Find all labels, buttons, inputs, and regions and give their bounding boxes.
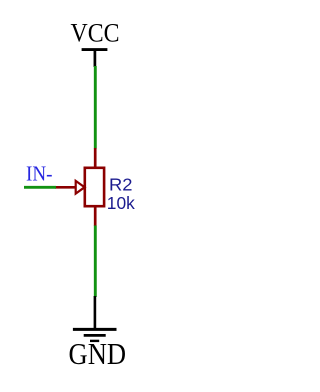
ground bar 3 [90, 340, 99, 342]
potentiometer R2 pin 1 stub [94, 148, 97, 167]
svg-text:VCC: VCC [71, 19, 120, 48]
potentiometer R2 pin 3 stub [94, 206, 97, 226]
svg-text:GND: GND [69, 337, 127, 371]
potentiometer R2 wiper arrow [55, 181, 85, 194]
wire IN- to wiper [24, 186, 56, 189]
potentiometer R2 body [85, 168, 104, 206]
ground bar 1 [73, 328, 117, 331]
ground stub [94, 296, 97, 329]
svg-text:IN-: IN- [26, 162, 53, 186]
power symbol VCC stub [94, 50, 97, 67]
wire VCC to R2 pin 1 [94, 66, 97, 149]
ground bar 2 [84, 334, 106, 337]
svg-text:R2: R2 [109, 175, 133, 195]
svg-text:10k: 10k [107, 193, 135, 213]
wire R2 pin 3 to GND [94, 226, 97, 298]
power symbol VCC bar [82, 48, 108, 51]
